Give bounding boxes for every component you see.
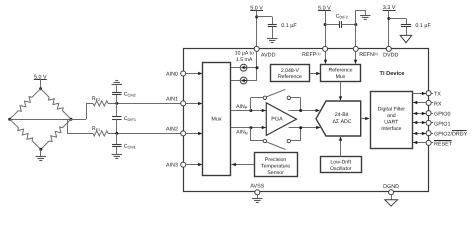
svg-text:RX: RX <box>434 102 442 108</box>
pin GPIO1 <box>426 120 450 127</box>
node IDAC AVDD junction <box>256 66 259 69</box>
pin DGND <box>383 184 399 195</box>
pin RESET <box>426 140 453 147</box>
svg-text:AINP: AINP <box>236 104 248 110</box>
wire REFN pin to reference mux <box>354 51 357 64</box>
svg-text:Temperature: Temperature <box>261 164 290 170</box>
pin AIN3 <box>166 162 186 168</box>
wire REFP to CDIF2 <box>325 24 340 26</box>
pin AIN1 <box>166 97 186 106</box>
node PGA output P <box>299 109 302 112</box>
svg-text:AINN: AINN <box>236 130 248 136</box>
svg-text:DVDD: DVDD <box>383 53 398 59</box>
wire REFP pin to reference mux <box>324 51 327 64</box>
svg-text:TX: TX <box>434 92 441 98</box>
wire temperature sensor to mux <box>231 163 254 166</box>
wire TX <box>413 92 427 95</box>
svg-text:0.1 µF: 0.1 µF <box>415 23 431 29</box>
wire IDACs to AVDD <box>247 51 257 80</box>
block Digital Filter and UART Interface <box>371 92 413 149</box>
svg-text:ΔΣ ADC: ΔΣ ADC <box>332 119 351 125</box>
svg-text:Mux: Mux <box>336 74 346 80</box>
svg-text:RF2: RF2 <box>92 96 100 102</box>
svg-text:Reference: Reference <box>329 68 353 74</box>
node PGA output N <box>299 126 302 129</box>
wire ADC to digital filter <box>361 117 370 120</box>
capacitor CDIF2 <box>339 21 341 28</box>
ADC 24-bit delta-sigma block <box>316 101 361 136</box>
node AVDD decoupling junction <box>255 15 258 18</box>
svg-text:2.048-V: 2.048-V <box>281 68 300 74</box>
svg-text:TI Device: TI Device <box>380 70 405 77</box>
mux block <box>203 63 231 176</box>
pin AIN2 <box>166 127 186 136</box>
supply 5.0 V (AVDD) <box>250 5 263 46</box>
wire reference mux to ADC <box>339 82 342 101</box>
wire AIN3 pin to mux <box>186 163 203 166</box>
capacitor CDIF1 <box>112 103 122 133</box>
wire AINP (mux to PGA) <box>231 109 266 112</box>
svg-text:24-Bit: 24-Bit <box>335 112 349 118</box>
node DVDD decoupling junction <box>387 17 390 20</box>
wire IDAC2 to mux <box>231 80 240 82</box>
svg-text:GPIO2/DRDY: GPIO2/DRDY <box>434 132 468 138</box>
resistor RF1 <box>93 131 108 136</box>
wire AINP bypass rail <box>251 98 264 111</box>
svg-text:CCM2: CCM2 <box>124 92 136 98</box>
supply 5.0 V (bridge excitation) <box>34 74 47 88</box>
switch PGA bypass top <box>263 89 290 99</box>
wire GPIO0 <box>413 112 426 115</box>
current source IDAC1 <box>240 64 247 71</box>
wire tap up to RF2 <box>86 103 93 119</box>
wire AIN2 pin to mux <box>186 132 203 135</box>
resistor RF2 <box>93 101 108 106</box>
wire RF1 to AIN2 pin <box>108 133 181 135</box>
pin RX <box>426 100 442 107</box>
node bridge bottom <box>39 148 42 151</box>
wire AVDD to bypass cap <box>257 17 273 25</box>
pin AIN0 <box>166 71 186 77</box>
wire DVDD to bypass cap <box>389 19 407 25</box>
resistor bridge arm top-left <box>10 89 41 120</box>
svg-text:AIN2: AIN2 <box>166 127 178 133</box>
svg-text:0.1 µF: 0.1 µF <box>281 23 297 29</box>
wire reference to reference mux <box>310 72 321 75</box>
wire REFN to ground <box>356 10 366 46</box>
wire AINN (mux to PGA) <box>231 126 266 129</box>
block 2.048-V Reference <box>271 65 310 82</box>
node AINN bypass tap <box>249 126 252 129</box>
node CCM2 junction <box>115 102 118 105</box>
svg-text:Digital Filter: Digital Filter <box>378 106 406 112</box>
node CCM1 junction <box>115 132 118 135</box>
pin DVDD <box>383 46 398 58</box>
ground (DGND, triangle) <box>385 200 398 206</box>
TI device boundary box <box>184 49 429 192</box>
svg-text:GPIO0: GPIO0 <box>434 112 450 118</box>
svg-text:Sensor: Sensor <box>267 170 284 176</box>
svg-text:Precision: Precision <box>265 157 286 163</box>
wire RESET <box>413 141 426 144</box>
capacitor CCM1 <box>112 133 122 154</box>
wire RF2 to AIN1 pin <box>108 103 181 105</box>
svg-text:AVSS: AVSS <box>250 183 264 189</box>
svg-text:1.5 mA: 1.5 mA <box>236 57 253 63</box>
wire AIN0 pin to mux <box>186 72 203 75</box>
block Low-Drift Oscillator <box>321 157 362 173</box>
wire AIN1 pin to mux <box>186 102 203 105</box>
capacitor CCM2 <box>112 85 122 103</box>
svg-text:RESET: RESET <box>434 142 453 148</box>
wire RX <box>413 101 426 104</box>
ground (CCM1) <box>112 155 122 159</box>
node REFN cap junction <box>354 23 357 26</box>
pin REFP <box>302 46 328 58</box>
capacitor 0.1 uF (DVDD) <box>401 25 411 36</box>
wire DGND to ground <box>391 195 393 200</box>
svg-text:10 µA to: 10 µA to <box>235 50 254 56</box>
svg-text:AIN1: AIN1 <box>166 97 178 103</box>
svg-text:RF1: RF1 <box>92 126 100 132</box>
svg-text:DGND: DGND <box>383 184 399 190</box>
wire GPIO1 <box>413 121 426 124</box>
ground (REFN) <box>360 16 370 20</box>
resistor bridge arm top-right <box>41 89 71 120</box>
node bridge top (excitation) <box>39 87 42 90</box>
svg-text:CCM1: CCM1 <box>124 144 136 150</box>
pin AVDD <box>254 46 275 58</box>
label 10 uA to 1.5 mA <box>235 50 254 63</box>
svg-text:CDIF2: CDIF2 <box>336 14 348 20</box>
wire bottom switch to PGA output <box>291 128 301 141</box>
capacitor 0.1 uF (AVDD) <box>268 25 277 39</box>
op-amp PGA <box>266 103 296 136</box>
wire IDAC1 to mux <box>231 67 240 69</box>
svg-text:and: and <box>387 113 396 119</box>
svg-text:AIN0: AIN0 <box>166 71 178 77</box>
pin TX <box>426 91 441 98</box>
svg-text:Interface: Interface <box>381 126 401 132</box>
svg-text:AVDD: AVDD <box>261 53 276 59</box>
wire tap down to RF1 <box>67 119 93 133</box>
wire bridge output horizontal <box>10 119 86 121</box>
ground (bridge) <box>36 157 46 161</box>
node REFP cap junction <box>324 23 327 26</box>
switch PGA bypass bottom <box>263 139 290 149</box>
svg-text:CDIF1: CDIF1 <box>124 116 136 122</box>
wire CDIF2 to REFN line <box>342 24 356 26</box>
label 24-Bit dS ADC <box>332 112 351 125</box>
node bridge right output <box>70 118 73 121</box>
current source IDAC2 <box>240 77 247 84</box>
wire oscillator to ADC <box>339 137 342 157</box>
svg-text:Oscillator: Oscillator <box>330 166 352 172</box>
ground (AVSS) <box>252 199 262 203</box>
svg-text:GPIO1: GPIO1 <box>434 122 450 128</box>
block Reference Mux <box>321 65 361 82</box>
pin GPIO0 <box>426 111 450 118</box>
supply 3.3 V (DVDD) <box>383 5 396 46</box>
ground (AVDD cap) <box>267 39 277 43</box>
node bridge left output <box>8 118 11 121</box>
supply 5.0 V (REFP) <box>318 6 331 47</box>
pin REFN <box>353 46 378 58</box>
node AINP bypass tap <box>249 109 252 112</box>
wire PGA output N to ADC <box>289 126 321 129</box>
wire PGA output P to ADC <box>289 109 320 112</box>
wire top switch to PGA output <box>291 98 301 111</box>
resistor bridge arm bottom-right <box>41 119 71 149</box>
svg-text:Low-Drift: Low-Drift <box>330 159 351 165</box>
pin AVSS <box>250 183 264 194</box>
pin GPIO2/DRDY <box>426 131 468 138</box>
wire bridge bottom to ground <box>40 149 42 156</box>
svg-text:PGA: PGA <box>271 117 283 123</box>
svg-text:Mux: Mux <box>211 116 221 122</box>
wire AVSS to ground <box>257 195 259 199</box>
ground (CCM2, inverted) <box>112 81 122 85</box>
svg-text:Reference: Reference <box>278 74 302 80</box>
wire GPIO2 <box>413 132 426 135</box>
wire AINN bypass rail <box>251 128 264 141</box>
svg-text:UART: UART <box>384 119 399 125</box>
block Precision Temperature Sensor <box>255 153 298 177</box>
svg-text:AIN3: AIN3 <box>166 163 178 169</box>
resistor bridge arm bottom-left <box>10 119 41 149</box>
ground (DVDD cap, triangle) <box>400 35 412 42</box>
